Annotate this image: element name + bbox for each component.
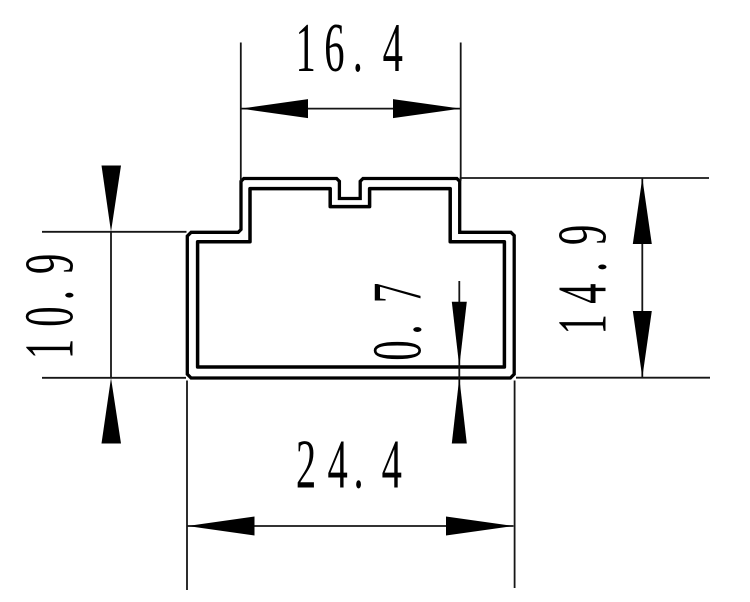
arrowhead 24.4 right xyxy=(446,517,513,536)
extension line 10.9 top xyxy=(42,231,187,233)
profile inner contour xyxy=(198,189,505,367)
dimension text 14.9 xyxy=(544,225,621,335)
arrowhead 24.4 left xyxy=(188,517,255,536)
svg-text:4: 4 xyxy=(383,10,403,87)
arrowhead 14.9 up xyxy=(633,178,652,244)
dimension line 16.4 xyxy=(241,108,461,110)
svg-text:.: . xyxy=(353,10,363,87)
svg-text:.: . xyxy=(11,290,88,300)
arrowhead 14.9 down xyxy=(633,311,652,378)
extension line 14.9 bottom xyxy=(516,377,710,379)
svg-text:.: . xyxy=(544,262,621,272)
svg-text:4: 4 xyxy=(327,426,347,503)
dimension text 16.4 xyxy=(295,10,402,87)
extension line 24.4 right xyxy=(514,381,516,589)
arrowhead 16.4 left xyxy=(241,99,308,118)
extension line 24.4 left xyxy=(186,381,188,591)
dimension line 10.9 xyxy=(110,232,112,378)
extension line 14.9 top xyxy=(460,177,709,179)
dimension text 0.7 xyxy=(359,283,436,361)
svg-text:9: 9 xyxy=(11,254,88,274)
svg-text:.: . xyxy=(359,324,436,334)
arrowhead 0.7 down (points to inner bottom) xyxy=(452,302,467,367)
arrowhead 10.9 down (above top ext line) xyxy=(102,166,122,232)
dimension line 14.9 xyxy=(641,178,643,378)
extension line 10.9 bottom xyxy=(42,377,186,379)
svg-text:1: 1 xyxy=(544,314,621,334)
dimension line 24.4 xyxy=(187,525,513,527)
svg-text:1: 1 xyxy=(11,339,88,359)
svg-text:9: 9 xyxy=(544,225,621,245)
extension line 16.4 right xyxy=(460,43,462,181)
dimension text 10.9 xyxy=(11,254,88,359)
svg-text:4: 4 xyxy=(544,283,621,303)
arrowhead 0.7 up (points to outer bottom) xyxy=(452,378,467,444)
svg-text:6: 6 xyxy=(324,10,344,87)
dimension text 24.4 xyxy=(296,426,402,503)
extension line 16.4 left xyxy=(240,43,242,182)
profile outer contour xyxy=(187,179,514,379)
svg-text:.: . xyxy=(354,426,364,503)
arrowhead 10.9 up (below bottom ext line) xyxy=(102,378,122,444)
dimension line 0.7 xyxy=(458,281,460,444)
svg-text:7: 7 xyxy=(359,283,436,303)
svg-text:0: 0 xyxy=(11,306,88,326)
svg-text:1: 1 xyxy=(295,10,315,87)
arrowhead 16.4 right xyxy=(393,99,461,118)
svg-text:4: 4 xyxy=(382,426,402,503)
svg-text:2: 2 xyxy=(296,426,316,503)
svg-text:0: 0 xyxy=(359,340,436,360)
